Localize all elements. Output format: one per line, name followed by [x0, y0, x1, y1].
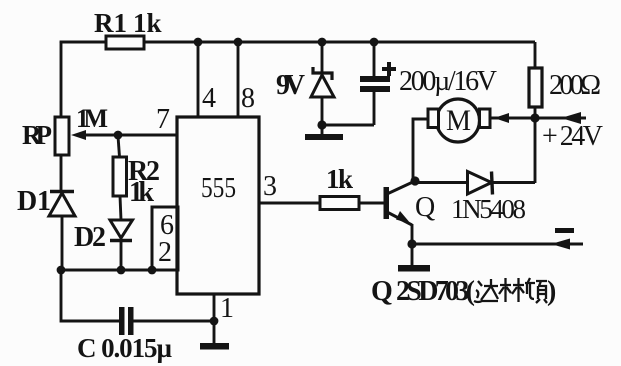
- svg-text:4: 4: [202, 83, 216, 114]
- pin label 3: [263, 171, 277, 202]
- minus sign: [555, 228, 574, 233]
- svg-text:200Ω: 200Ω: [549, 70, 601, 101]
- pin label 2: [158, 237, 172, 268]
- label M: [446, 104, 471, 137]
- wire pin 8: [237, 42, 240, 117]
- node pin1/C: [210, 317, 219, 326]
- svg-text:8: 8: [241, 83, 255, 114]
- label 200ohm: [549, 70, 601, 101]
- svg-text:9V: 9V: [276, 70, 305, 101]
- wire C to pin1 column: [134, 320, 215, 323]
- svg-text:555: 555: [201, 172, 236, 204]
- label Q: [415, 192, 435, 223]
- svg-text:3: 3: [263, 171, 277, 202]
- wire motor left lead: [413, 119, 428, 181]
- wire zener to cap bottom: [322, 124, 374, 127]
- node pin8 top: [234, 38, 243, 47]
- label Q 2SD703: [371, 276, 475, 307]
- ground under zener: [305, 134, 343, 140]
- svg-text:D1: D1: [17, 186, 51, 217]
- node D2 bottom: [117, 266, 126, 275]
- label 9V: [276, 70, 305, 101]
- svg-text:1: 1: [220, 293, 234, 324]
- diode D2: [110, 220, 133, 241]
- wire base: [359, 202, 384, 205]
- wire minus terminal: [412, 243, 583, 246]
- label 1N5408: [451, 194, 526, 224]
- svg-text:1k: 1k: [326, 164, 353, 194]
- resistor 200ohm: [529, 42, 542, 183]
- svg-text:R1: R1: [94, 8, 127, 38]
- svg-text:7: 7: [156, 104, 170, 135]
- wire left rail upper: [60, 42, 63, 118]
- arrow minus terminal: [551, 239, 570, 250]
- label R1 1k: [94, 8, 162, 38]
- pin label 7: [156, 104, 170, 135]
- pin label 1: [220, 293, 234, 324]
- wire D1 to bottom node: [61, 216, 64, 270]
- label 1M: [76, 104, 108, 133]
- wire pin 4: [197, 42, 200, 117]
- ground under emitter: [398, 265, 430, 272]
- transistor Q: [384, 181, 416, 244]
- label D2: [74, 222, 106, 253]
- wire left drop to C row: [61, 270, 119, 321]
- ground under pin 1: [200, 343, 229, 350]
- svg-text:1k: 1k: [129, 177, 154, 208]
- node bracket corner: [148, 266, 157, 275]
- wire top rail: [61, 42, 535, 43]
- node D1 bottom: [57, 266, 66, 275]
- node emitter: [407, 239, 416, 248]
- svg-text:D2: D2: [74, 222, 106, 253]
- arrow +24V: [561, 112, 581, 124]
- node ecap top: [370, 38, 379, 47]
- label R2: [128, 156, 160, 187]
- zener diode 9V: [311, 42, 334, 134]
- svg-text:200µ/16V: 200µ/16V: [399, 66, 497, 97]
- node pin4 top: [194, 38, 203, 47]
- label D1: [17, 186, 51, 217]
- node wiper/R2: [114, 131, 123, 140]
- wire R2 to D2: [120, 196, 121, 220]
- motor M: [428, 99, 490, 142]
- label C 0.015u: [77, 333, 172, 363]
- pin label 6: [160, 210, 174, 241]
- node +24V junction: [530, 113, 539, 122]
- resistor 1k base: [320, 197, 359, 210]
- pins 6/2 bracket: [152, 207, 178, 270]
- node zener bottom: [317, 120, 326, 129]
- arrow into motor: [494, 113, 509, 123]
- svg-text:C 0.015µ: C 0.015µ: [77, 333, 172, 363]
- label RP: [22, 120, 52, 150]
- wire +24V terminal: [535, 117, 586, 120]
- label closing paren: [547, 276, 556, 307]
- wiper arrow: [71, 130, 86, 140]
- svg-text:1M: 1M: [76, 104, 108, 133]
- svg-text:Q: Q: [371, 276, 393, 307]
- capacitor C: [119, 307, 134, 335]
- label 555: [201, 172, 236, 204]
- label 1k base: [326, 164, 353, 194]
- pin label 8: [241, 83, 255, 114]
- pin label 4: [202, 83, 216, 114]
- label +24V: [542, 121, 603, 152]
- potentiometer RP: [55, 117, 69, 155]
- svg-text:+ 24V: + 24V: [542, 121, 603, 152]
- svg-text:1k: 1k: [133, 8, 162, 38]
- resistor R1: [106, 36, 144, 49]
- diode D1: [49, 192, 75, 217]
- node collector: [410, 176, 419, 185]
- wire RP wiper to pin 7: [80, 134, 177, 137]
- label CJK da: [474, 279, 498, 302]
- svg-text:Q: Q: [415, 192, 435, 223]
- svg-text:): ): [547, 276, 556, 307]
- diode 1N5408: [468, 172, 493, 195]
- svg-text:2: 2: [158, 237, 172, 268]
- svg-text:2SD703(: 2SD703(: [396, 276, 475, 307]
- label R2 1k: [129, 177, 154, 208]
- svg-text:M: M: [446, 104, 471, 137]
- wire bottom-left horizontal: [61, 269, 152, 272]
- capacitor 200u/16V: [373, 42, 376, 125]
- wire RP bottom to D1: [60, 155, 63, 190]
- svg-text:RP: RP: [22, 120, 52, 150]
- svg-text:1N5408: 1N5408: [451, 194, 526, 224]
- wire pin 1: [213, 294, 216, 344]
- wire emitter to ground: [411, 244, 414, 266]
- resistor R2: [113, 136, 127, 196]
- node zener top: [318, 38, 327, 47]
- wire motor right lead: [490, 117, 535, 120]
- wire flyback rail: [415, 181, 535, 184]
- wire D2 to bottom node: [120, 241, 123, 270]
- op: 555 timer U1: [177, 117, 259, 294]
- label CJK lin: [499, 278, 524, 302]
- label 200u/16V: [399, 66, 497, 97]
- label CJK dun: [525, 278, 547, 303]
- wire pin 3: [259, 202, 320, 205]
